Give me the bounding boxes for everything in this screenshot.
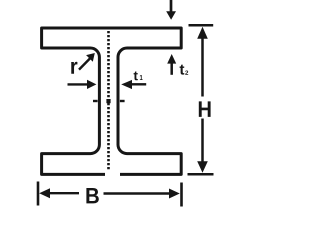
- label t2: [180, 65, 185, 75]
- label r: [71, 62, 77, 74]
- B dim right arrow: [104, 192, 171, 194]
- r arrow (diagonal): [79, 58, 90, 70]
- label H: [199, 101, 211, 117]
- B dimension left tick: [37, 182, 40, 206]
- label B: [86, 188, 98, 203]
- H dimension top tick: [189, 24, 214, 27]
- H dimension lower arrow: [201, 119, 204, 166]
- I-beam section outline: [42, 28, 182, 174]
- H dimension upper arrow: [201, 34, 204, 97]
- centerline (dotted): [107, 31, 110, 171]
- t2 up arrow: [170, 62, 173, 75]
- top down arrow: [170, 0, 173, 13]
- gap in bottom edge at centerline: [105, 170, 120, 179]
- B dim left arrow: [39, 188, 50, 198]
- center mark horizontal: [93, 100, 98, 102]
- B dimension right tick: [180, 183, 183, 207]
- t1 left-pointing arrow: [132, 83, 147, 85]
- t1 right-pointing arrow (left of web): [68, 83, 89, 85]
- H dimension bottom tick: [188, 173, 214, 176]
- label t1: [134, 72, 138, 81]
